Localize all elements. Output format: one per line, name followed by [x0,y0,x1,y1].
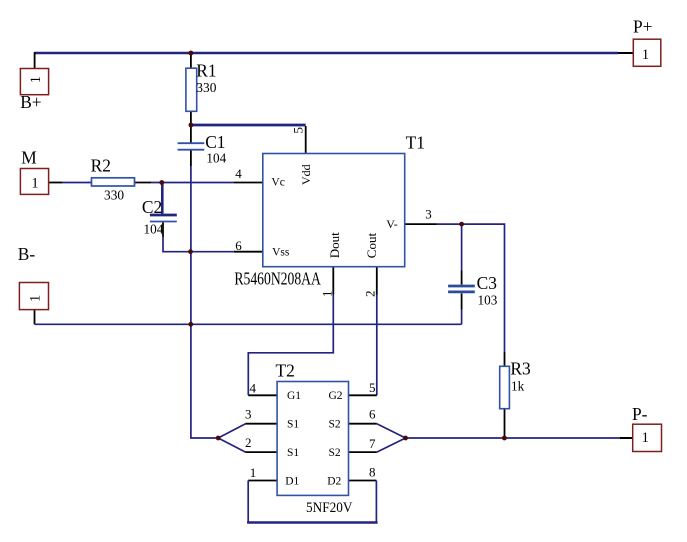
label C2 [142,197,162,217]
junction node Vc at R2/C2 [159,180,164,185]
connector B+ [20,69,48,95]
wire V- net to R3 [437,224,505,352]
svg-text:2: 2 [363,291,378,298]
wire C3 bottom to B- net [461,310,463,325]
pin number 1 of T1 (rotated) [320,291,335,298]
junction node VDD at R1 bottom [189,123,194,128]
wire S1 fan upper diagonal [218,424,245,438]
pin 1 label of connector P+ [642,47,649,63]
label R1 [196,60,216,80]
wire P- pin stub [620,437,633,439]
svg-text:1: 1 [27,295,43,302]
wire C1 bottom lead [190,150,192,166]
svg-text:104: 104 [206,150,226,165]
wire D1 down leg [247,481,249,523]
wire T2 pin 6 stub [349,423,377,425]
value 104 of C2 [144,222,164,237]
wire R2 to T1 Vc [151,182,234,184]
wire D2 down leg [375,481,377,523]
junction node R3 at P- net [502,436,507,441]
wire R1 top lead [190,54,192,68]
capacitor C1 [178,143,205,150]
capacitor C3 [448,286,475,292]
svg-text:6: 6 [235,238,242,253]
connector P- [633,424,662,451]
svg-text:8: 8 [369,465,376,480]
junction node B- net [188,322,193,327]
svg-text:S2: S2 [329,447,341,459]
resistor R2 [92,178,135,186]
label T1 [406,133,425,153]
svg-text:3: 3 [245,407,252,422]
pin number 2 of T2 [245,435,252,450]
svg-text:Vss: Vss [272,247,290,259]
svg-text:M: M [21,147,36,167]
pin number 1 of T2 [250,465,256,480]
label M [21,147,36,167]
svg-text:D1: D1 [285,476,299,488]
pin 1 label of connector B- (rotated) [27,295,43,302]
svg-text:T2: T2 [276,361,295,381]
label C1 [205,132,225,152]
svg-text:330: 330 [196,80,216,95]
pin number 4 of T1 [235,166,242,181]
svg-text:Dout: Dout [327,232,342,258]
value 103 of C3 [478,293,498,308]
wire VSS to T1 pin 6 [191,251,235,253]
wire B+ top bus to P+ [35,52,618,54]
pin number 6 of T2 [369,407,376,422]
wire C2 bottom lead [162,222,164,237]
wire S2 fan upper diagonal [377,424,406,438]
wire T1 pin 3 stub [405,223,437,225]
wire VSS vertical from C1 to S1 fan [191,166,218,438]
connector B- [19,283,48,310]
junction node on top bus at R1 [189,51,194,56]
svg-text:S2: S2 [329,419,341,431]
wire C2 top lead [161,183,164,214]
svg-text:5: 5 [369,380,376,395]
wire S1 fan lower diagonal [218,438,245,452]
junction node S2 fan [403,436,408,441]
wire R3 bottom lead [504,409,506,438]
wire R1 bottom lead [190,111,192,125]
wire M to R2 [63,182,92,184]
resistor R3 [500,366,510,408]
connector M [20,169,48,195]
svg-text:104: 104 [144,222,164,237]
wire T1 Cout pin 2 stub [376,267,378,295]
pin 1 label of connector M [31,176,38,192]
pin name D1 [285,476,299,488]
svg-text:P-: P- [632,404,648,424]
pin number 5 of T1 (rotated) [290,127,305,134]
wire S2 fan lower diagonal [377,438,406,452]
svg-text:4: 4 [235,166,242,181]
svg-text:6: 6 [369,407,376,422]
pin name D2 [327,476,341,488]
resistor R1 [186,68,197,111]
label R5460N208AA [234,269,321,289]
wire T1 pin 4 stub [234,182,263,184]
pin name S1 lower [287,447,299,459]
pin name Cout (rotated) [364,233,379,259]
wire T1 pin 5 stub [305,126,307,154]
junction node VSS at C2 [188,249,193,254]
connector P+ [633,39,661,66]
wire T2 pin 8 stub [349,480,377,482]
pin name G2 [329,390,343,402]
svg-text:Cout: Cout [364,233,379,259]
value 1k of R3 [511,379,525,394]
svg-text:R1: R1 [196,60,216,80]
value 330 of R1 [196,80,216,95]
svg-text:B-: B- [18,244,36,264]
junction node S1 fan [216,436,221,441]
svg-text:Vdd: Vdd [299,164,313,185]
capacitor C2 [150,215,177,222]
svg-text:G2: G2 [329,390,343,402]
label P+ [633,16,652,36]
pin number 6 of T1 [235,238,242,253]
svg-text:1: 1 [28,76,44,83]
wire C1 top lead [190,126,192,143]
svg-text:C1: C1 [205,132,225,152]
wire B- net horizontal [35,323,462,325]
wire Dout to T2 G1 [248,295,333,396]
pin number 2 of T1 (rotated) [363,291,378,298]
svg-text:C2: C2 [142,197,162,217]
pin name Dout (rotated) [327,232,342,258]
label 5NF20V [306,500,353,516]
wire Cout to T2 G2 [376,295,378,396]
wire M pin stub [49,182,63,184]
svg-text:7: 7 [369,436,376,451]
svg-text:C3: C3 [477,273,498,293]
value 330 of R2 [104,187,124,202]
svg-text:1: 1 [642,47,649,63]
pin number 7 of T2 [369,436,376,451]
svg-text:V-: V- [386,217,398,231]
svg-text:5: 5 [290,127,305,134]
pin name S2 lower [329,447,341,459]
svg-text:2: 2 [245,435,252,450]
pin name V- [386,217,398,231]
pin 1 label of connector B+ (rotated) [28,76,44,83]
wire C3 bottom pin [461,293,463,309]
svg-text:1: 1 [250,465,256,480]
svg-text:1: 1 [320,291,335,298]
value 104 of C1 [206,150,226,165]
svg-text:3: 3 [425,207,432,222]
label T2 [276,361,295,381]
op-amp U1 T1 IC body R5460N208AA [263,154,405,267]
svg-text:5NF20V: 5NF20V [306,500,353,516]
wire T2 pin 7 stub [349,451,377,453]
pin name Vdd (rotated) [299,164,313,185]
label P- [632,404,648,424]
wire C3 top lead [461,224,463,270]
pin number 5 of T2 [369,380,376,395]
svg-text:S1: S1 [287,447,299,459]
label B- [18,244,36,264]
svg-text:1k: 1k [511,379,525,394]
wire P- net horizontal [406,437,620,439]
pin number 3 of T2 [245,407,252,422]
junction node V- at C3 [459,222,464,227]
wire T2 pin 5 stub [349,394,377,396]
svg-text:T1: T1 [406,133,425,153]
wire P+ pin stub [618,52,633,54]
wire B- pin stub [34,310,36,325]
pin number 3 of T1 [425,207,432,222]
svg-text:G1: G1 [287,390,301,402]
label B+ [20,92,41,112]
wire R3 top lead [504,352,506,366]
wire R2 right lead [133,182,151,184]
svg-text:Vc: Vc [271,177,284,189]
pin name G1 [287,390,301,402]
pin name S2 upper [329,419,341,431]
wire D1-D2 bottom bus [247,521,378,524]
wire T2 pin 3 stub [246,423,278,425]
wire C2 to VSS [163,236,191,252]
svg-text:1: 1 [642,430,649,446]
wire VDD bus [191,124,306,127]
pin name Vss [272,247,290,259]
wire C3 top pin [461,271,463,285]
wire T1 Dout pin 1 stub [332,267,334,295]
svg-text:R5460N208AA: R5460N208AA [234,269,321,289]
pin number 4 of T2 [250,381,257,396]
svg-text:330: 330 [104,187,124,202]
wire T2 pin 2 stub [246,451,278,453]
wire B+ pin stub [34,52,36,69]
wire T2 pin 4 stub [248,394,277,396]
svg-text:P+: P+ [633,16,652,36]
svg-text:4: 4 [250,381,257,396]
svg-text:103: 103 [478,293,498,308]
svg-text:S1: S1 [287,419,299,431]
svg-text:1: 1 [31,176,38,192]
svg-text:R2: R2 [91,156,111,176]
svg-text:B+: B+ [20,92,41,112]
svg-text:D2: D2 [327,476,341,488]
svg-text:R3: R3 [510,359,531,379]
wire T1 pin 6 stub [234,251,263,253]
pin name Vc [271,177,284,189]
pin name S1 upper [287,419,299,431]
pin 1 label of connector P- [642,430,649,446]
label C3 [477,273,498,293]
pin number 8 of T2 [369,465,376,480]
label R3 [510,359,531,379]
transistor T2 IC body 5NF20V [277,382,348,496]
wire T2 pin 1 stub [248,480,277,482]
label R2 [91,156,111,176]
